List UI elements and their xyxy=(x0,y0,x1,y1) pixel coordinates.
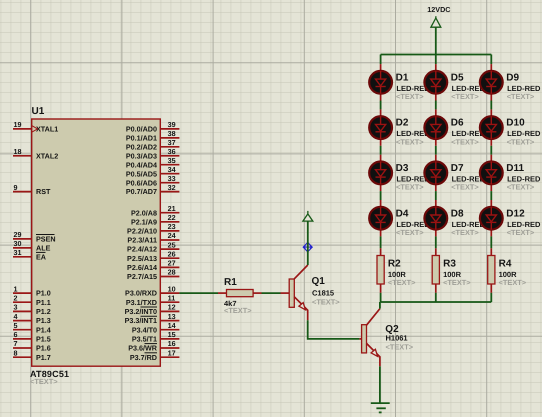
svg-text:D9: D9 xyxy=(506,72,519,83)
U1 pin 14 (P3.4/T0) stub, number and name xyxy=(132,321,180,334)
svg-text:P3.5/T1: P3.5/T1 xyxy=(132,335,157,344)
svg-text:34: 34 xyxy=(168,165,176,174)
svg-text:D10: D10 xyxy=(506,118,525,129)
LED D11 xyxy=(480,155,503,191)
U1 pin 9 (RST) stub, number and name xyxy=(13,183,51,196)
svg-text:5: 5 xyxy=(14,321,18,330)
svg-text:P1.6: P1.6 xyxy=(36,344,51,353)
svg-text:<TEXT>: <TEXT> xyxy=(224,306,252,315)
U1 pin 16 (P3.6/WR) stub, number and name xyxy=(128,339,179,352)
svg-text:23: 23 xyxy=(168,222,176,231)
svg-text:22: 22 xyxy=(168,213,176,222)
svg-text:32: 32 xyxy=(168,183,176,192)
svg-text:<TEXT>: <TEXT> xyxy=(396,228,424,237)
svg-text:39: 39 xyxy=(168,120,176,129)
svg-text:6: 6 xyxy=(14,330,18,339)
wire R4 to bottom rail xyxy=(490,293,492,302)
U1 pin 21 (P2.0/A8) stub, number and name xyxy=(131,204,179,217)
svg-text:25: 25 xyxy=(168,240,176,249)
svg-text:P2.3/A11: P2.3/A11 xyxy=(127,236,157,245)
U1 pin 22 (P2.1/A9) stub, number and name xyxy=(131,213,179,226)
svg-text:D5: D5 xyxy=(451,72,464,83)
svg-text:<TEXT>: <TEXT> xyxy=(386,343,414,352)
wire U1 pin10 to R1 xyxy=(179,292,218,294)
svg-text:P3.6/WR: P3.6/WR xyxy=(128,344,158,353)
svg-text:PSEN: PSEN xyxy=(36,235,56,244)
svg-text:P3.4/T0: P3.4/T0 xyxy=(132,325,157,334)
svg-text:31: 31 xyxy=(14,248,22,257)
U1 pin 32 (P0.7/AD7) stub, number and name xyxy=(126,183,180,196)
wire R1 to Q1 base xyxy=(262,292,281,294)
U1 pin 6 (P1.5) stub, number and name xyxy=(13,330,51,343)
svg-text:<TEXT>: <TEXT> xyxy=(451,228,479,237)
wire D12 to R4 xyxy=(490,236,492,248)
resistor R4 xyxy=(488,248,495,292)
svg-text:15: 15 xyxy=(168,330,176,339)
U1 pin 5 (P1.4) stub, number and name xyxy=(13,321,51,334)
U1 pin 36 (P0.3/AD3) stub, number and name xyxy=(126,147,180,160)
wire D4 to R2 xyxy=(380,236,382,248)
svg-text:P3.0/RXD: P3.0/RXD xyxy=(125,289,157,298)
svg-text:36: 36 xyxy=(168,147,176,156)
wire D5 to D6 xyxy=(435,101,437,110)
U1 pin 23 (P2.2/A10) stub, number and name xyxy=(127,222,179,235)
resistor R2 xyxy=(377,248,384,292)
ground symbol xyxy=(371,403,390,412)
resistor R3 xyxy=(432,248,439,292)
U1 pin 18 (XTAL2) stub, number and name xyxy=(13,147,58,160)
svg-text:P3.2/INT0: P3.2/INT0 xyxy=(125,307,157,316)
wire top rail to D5 xyxy=(435,55,437,65)
svg-text:19: 19 xyxy=(14,120,22,129)
resistor R1 xyxy=(218,290,262,297)
U1 XTAL1 clock input caret xyxy=(32,126,38,132)
svg-text:RST: RST xyxy=(36,187,51,196)
svg-text:11: 11 xyxy=(168,293,176,302)
svg-text:P1.0: P1.0 xyxy=(36,289,51,298)
LED D6 xyxy=(424,109,447,145)
U1 pin 28 (P2.7/A15) stub, number and name xyxy=(127,268,179,281)
svg-text:EA: EA xyxy=(36,252,46,261)
svg-text:14: 14 xyxy=(168,321,176,330)
svg-text:D8: D8 xyxy=(451,208,464,219)
U1 pin 38 (P0.1/AD1) stub, number and name xyxy=(126,129,180,142)
wire Q1 emitter down and across to Q2 base xyxy=(308,320,360,339)
transistor Q1 (NPN) xyxy=(281,265,308,320)
svg-text:<TEXT>: <TEXT> xyxy=(312,298,340,307)
wire top rail to D9 xyxy=(490,55,492,65)
U1 pin 39 (P0.0/AD0) stub, number and name xyxy=(126,120,180,133)
svg-text:D2: D2 xyxy=(396,118,409,129)
U1 pin 3 (P1.2) stub, number and name xyxy=(13,303,51,316)
svg-text:17: 17 xyxy=(168,348,176,357)
svg-text:R4: R4 xyxy=(499,259,512,270)
svg-text:P2.7/A15: P2.7/A15 xyxy=(127,272,157,281)
wire 12VDC arrow down to top rail xyxy=(435,27,437,54)
svg-text:P3.1/TXD: P3.1/TXD xyxy=(126,298,157,307)
svg-text:P3.7/RD: P3.7/RD xyxy=(130,353,157,362)
svg-text:4: 4 xyxy=(14,312,18,321)
svg-text:P0.4/AD4: P0.4/AD4 xyxy=(126,160,157,169)
svg-text:12VDC: 12VDC xyxy=(427,5,450,14)
svg-text:P2.0/A8: P2.0/A8 xyxy=(131,208,157,217)
svg-text:D7: D7 xyxy=(451,163,464,174)
svg-text:<TEXT>: <TEXT> xyxy=(507,228,535,237)
svg-text:P1.7: P1.7 xyxy=(36,353,51,362)
U1 pin 27 (P2.6/A14) stub, number and name xyxy=(127,259,179,272)
svg-text:1: 1 xyxy=(14,284,18,293)
svg-text:35: 35 xyxy=(168,156,176,165)
svg-text:R2: R2 xyxy=(388,259,401,270)
svg-text:P0.7/AD7: P0.7/AD7 xyxy=(126,187,157,196)
svg-text:H1061: H1061 xyxy=(386,334,408,343)
svg-text:P0.3/AD3: P0.3/AD3 xyxy=(126,151,157,160)
svg-text:P2.1/A9: P2.1/A9 xyxy=(131,217,157,226)
svg-text:XTAL2: XTAL2 xyxy=(36,151,58,160)
LED D8 xyxy=(424,200,447,236)
svg-text:26: 26 xyxy=(168,249,176,258)
svg-text:P1.5: P1.5 xyxy=(36,335,51,344)
wire D9 to D10 xyxy=(490,101,492,110)
LED D9 xyxy=(480,64,503,100)
svg-text:29: 29 xyxy=(14,230,22,239)
svg-text:3: 3 xyxy=(14,303,18,312)
svg-text:P1.3: P1.3 xyxy=(36,316,51,325)
svg-text:D3: D3 xyxy=(396,163,409,174)
wire Q2 emitter to ground xyxy=(379,366,381,403)
svg-text:10: 10 xyxy=(168,284,176,293)
U1 pin 19 (XTAL1) stub, number and name xyxy=(13,120,58,133)
svg-text:7: 7 xyxy=(14,339,18,348)
transistor Q2 (NPN) xyxy=(359,309,380,367)
svg-text:27: 27 xyxy=(168,259,176,268)
svg-text:D12: D12 xyxy=(506,208,525,219)
svg-text:P2.5/A13: P2.5/A13 xyxy=(127,254,157,263)
svg-text:D4: D4 xyxy=(396,208,409,219)
svg-text:24: 24 xyxy=(168,231,176,240)
svg-text:37: 37 xyxy=(168,138,176,147)
U1 pin 2 (P1.1) stub, number and name xyxy=(13,293,51,307)
svg-text:ALE: ALE xyxy=(36,244,51,253)
svg-text:P3.3/INT1: P3.3/INT1 xyxy=(125,316,157,325)
wire D11 to D12 xyxy=(490,191,492,200)
svg-text:<TEXT>: <TEXT> xyxy=(507,92,535,101)
U1 pin 35 (P0.4/AD4) stub, number and name xyxy=(126,156,180,169)
U1 pin 34 (P0.5/AD5) stub, number and name xyxy=(126,165,180,178)
wire D1 to D2 xyxy=(380,101,382,110)
svg-text:<TEXT>: <TEXT> xyxy=(451,183,479,192)
svg-text:<TEXT>: <TEXT> xyxy=(499,278,527,287)
wire Q1 collector to power arrow xyxy=(307,221,309,265)
svg-text:C1815: C1815 xyxy=(312,289,334,298)
LED D3 xyxy=(369,155,392,191)
microcontroller U1 body xyxy=(32,119,161,366)
svg-text:9: 9 xyxy=(14,183,18,192)
svg-text:<TEXT>: <TEXT> xyxy=(443,278,471,287)
wire R3 to bottom rail xyxy=(435,293,437,302)
svg-text:<TEXT>: <TEXT> xyxy=(451,137,479,146)
U1 pin 10 (P3.0/RXD) stub, number and name xyxy=(125,284,179,297)
wire R2 to bottom rail xyxy=(380,293,382,302)
svg-text:<TEXT>: <TEXT> xyxy=(396,137,424,146)
svg-text:P0.6/AD6: P0.6/AD6 xyxy=(126,178,157,187)
svg-text:2: 2 xyxy=(14,293,18,302)
svg-text:U1: U1 xyxy=(32,106,45,117)
svg-text:12: 12 xyxy=(168,303,176,312)
LED D10 xyxy=(480,109,503,145)
wire D6 to D7 xyxy=(435,146,437,155)
svg-text:<TEXT>: <TEXT> xyxy=(507,137,535,146)
U1 pin 15 (P3.5/T1) stub, number and name xyxy=(132,330,180,343)
svg-text:P0.1/AD1: P0.1/AD1 xyxy=(126,134,157,143)
U1 pin 11 (P3.1/TXD) stub, number and name xyxy=(126,293,180,307)
power symbol 12VDC xyxy=(431,16,441,27)
svg-text:D11: D11 xyxy=(506,163,524,174)
wire D2 to D3 xyxy=(380,146,382,155)
svg-text:21: 21 xyxy=(168,204,176,213)
wire D3 to D4 xyxy=(380,191,382,200)
power symbol (vertical supply arrow above Q1) xyxy=(303,211,313,221)
svg-text:D1: D1 xyxy=(396,72,409,83)
svg-text:P1.4: P1.4 xyxy=(36,325,51,334)
wire top rail to D1 xyxy=(380,55,382,65)
svg-text:P1.1: P1.1 xyxy=(36,298,51,307)
U1 pin 25 (P2.4/A12) stub, number and name xyxy=(127,240,179,253)
svg-text:13: 13 xyxy=(168,312,176,321)
U1 pin 29 (PSEN) stub, number and name xyxy=(13,230,56,243)
svg-text:38: 38 xyxy=(168,129,176,138)
svg-text:P2.4/A12: P2.4/A12 xyxy=(127,245,157,254)
svg-text:<TEXT>: <TEXT> xyxy=(388,278,416,287)
U1 pin 17 (P3.7/RD) stub, number and name xyxy=(130,348,180,361)
node marker (blue junction diamond on Q1 collector wire) xyxy=(303,242,312,251)
svg-text:XTAL1: XTAL1 xyxy=(36,125,58,134)
svg-text:P0.5/AD5: P0.5/AD5 xyxy=(126,169,157,178)
svg-text:R3: R3 xyxy=(443,259,456,270)
svg-text:28: 28 xyxy=(168,268,176,277)
svg-text:P2.6/A14: P2.6/A14 xyxy=(127,263,157,272)
LED D4 xyxy=(369,200,392,236)
svg-text:16: 16 xyxy=(168,339,176,348)
LED D5 xyxy=(424,64,447,100)
wire D10 to D11 xyxy=(490,146,492,155)
svg-text:P0.0/AD0: P0.0/AD0 xyxy=(126,125,157,134)
U1 pin 33 (P0.6/AD6) stub, number and name xyxy=(126,174,180,187)
U1 pin 24 (P2.3/A11) stub, number and name xyxy=(127,231,179,244)
svg-text:<TEXT>: <TEXT> xyxy=(507,183,535,192)
U1 pin 13 (P3.3/INT1) stub, number and name xyxy=(125,312,180,325)
svg-text:<TEXT>: <TEXT> xyxy=(396,92,424,101)
wire Q2 collector to resistor rail xyxy=(379,302,381,309)
U1 pin 30 (ALE) stub, number and name xyxy=(13,239,51,252)
svg-text:P0.2/AD2: P0.2/AD2 xyxy=(126,142,157,151)
svg-text:18: 18 xyxy=(14,147,22,156)
U1 pin 1 (P1.0) stub, number and name xyxy=(13,284,51,297)
LED D2 xyxy=(369,109,392,145)
svg-text:33: 33 xyxy=(168,174,176,183)
U1 pin 7 (P1.6) stub, number and name xyxy=(13,339,51,352)
svg-text:8: 8 xyxy=(14,348,18,357)
svg-text:P1.2: P1.2 xyxy=(36,307,51,316)
LED D12 xyxy=(480,200,503,236)
svg-text:<TEXT>: <TEXT> xyxy=(396,183,424,192)
U1 pin 37 (P0.2/AD2) stub, number and name xyxy=(126,138,180,151)
svg-text:<TEXT>: <TEXT> xyxy=(451,92,479,101)
svg-text:Q1: Q1 xyxy=(312,276,326,287)
wire D8 to R3 xyxy=(435,236,437,248)
U1 pin 12 (P3.2/INT0) stub, number and name xyxy=(125,303,180,316)
U1 pin 4 (P1.3) stub, number and name xyxy=(13,312,51,325)
U1 pin 8 (P1.7) stub, number and name xyxy=(13,348,51,361)
wire top supply rail xyxy=(381,54,492,56)
svg-text:<TEXT>: <TEXT> xyxy=(30,377,58,386)
wire bottom rail joining R2 R3 R4 to Q2 collector xyxy=(381,301,492,303)
svg-text:30: 30 xyxy=(14,239,22,248)
LED D1 xyxy=(369,64,392,100)
svg-text:D6: D6 xyxy=(451,118,464,129)
svg-text:P2.2/A10: P2.2/A10 xyxy=(127,227,157,236)
svg-text:R1: R1 xyxy=(224,277,237,288)
U1 pin 31 (EA) stub, number and name xyxy=(13,248,46,261)
U1 pin 26 (P2.5/A13) stub, number and name xyxy=(127,249,179,263)
wire D7 to D8 xyxy=(435,191,437,200)
LED D7 xyxy=(424,155,447,191)
